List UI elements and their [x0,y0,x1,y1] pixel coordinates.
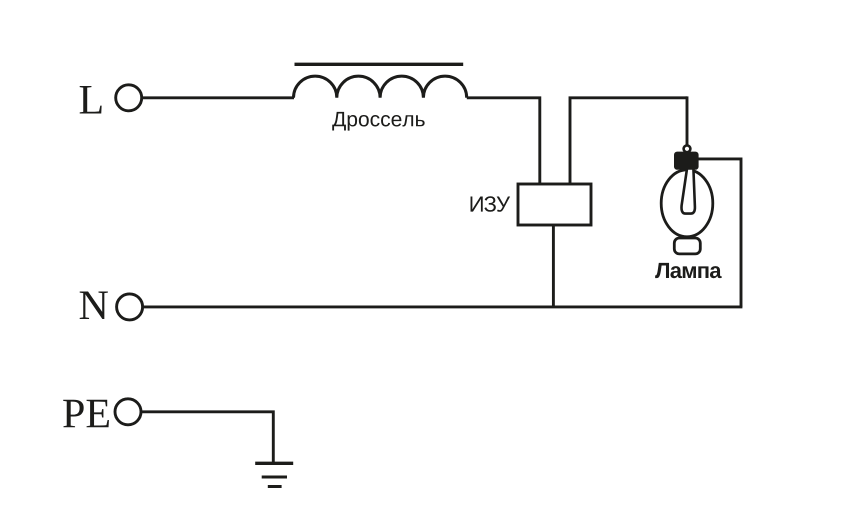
value label Дроссель [332,112,424,131]
wire PE terminal to ground [141,412,273,463]
wire ignitor to lamp branch [570,98,687,184]
lamp base bottom [674,238,700,254]
terminal PE [63,399,141,428]
wire lamp cap to right rail down to N [698,159,741,307]
wire down to lamp cap [686,96,689,146]
terminal L [80,85,142,114]
lamp bulb ellipse [661,170,713,237]
wire ignitor bottom to N rail [552,225,555,307]
inductor L1 Дроссель (choke) [294,76,467,98]
inductor core bar [295,63,464,66]
lamp arc tube [682,166,695,214]
reference label Лампа [655,263,722,278]
lamp cap nub [684,145,691,152]
ground [255,463,293,486]
reference label ИЗУ [471,196,511,212]
lamp EL1 Лампа [661,145,713,253]
ignitor U1 box ИЗУ [518,184,591,225]
terminal N [80,292,143,320]
wire inductor to ignitor, node A [467,98,540,184]
wire N rail [143,305,743,308]
wire L terminal to inductor [142,96,294,99]
lamp cap [674,152,699,170]
